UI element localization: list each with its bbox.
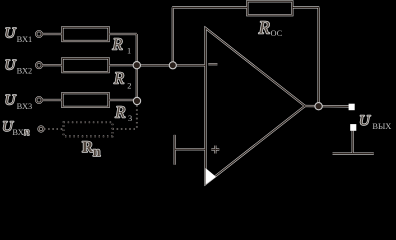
junction dot node R3/bus [134,98,140,104]
svg-text:ВХ: ВХ [12,128,23,137]
junction dot feedback/input node [170,62,176,68]
junction dot halo node R3/bus [133,97,141,105]
svg-text:ВХ3: ВХ3 [17,102,33,111]
junction dot halo node R2/bus [133,61,141,69]
svg-text:ОС: ОС [271,29,283,38]
svg-text:n: n [24,126,30,138]
output terminal lower white pad [350,124,356,131]
junction dot node R2/bus [134,62,140,68]
wire halo layer [36,1,374,184]
dotted ink core layer [44,101,137,136]
output terminal upper white pad [349,104,355,111]
svg-text:2: 2 [127,82,131,91]
svg-text:U: U [5,58,17,74]
dotted halo layer [44,101,137,136]
op-amp corner white patch [206,168,217,185]
svg-text:R: R [112,35,123,54]
svg-text:R: R [258,17,270,37]
svg-text:R: R [114,102,125,121]
svg-text:U: U [5,93,17,109]
svg-text:U: U [5,26,17,42]
junction dot halo feedback node [169,61,177,69]
svg-text:3: 3 [128,114,132,123]
svg-text:1: 1 [127,46,131,55]
svg-text:ВХ2: ВХ2 [17,67,33,76]
junction dot output node [316,103,322,109]
junction dot halo output node [314,102,322,110]
svg-text:R: R [113,68,124,87]
wire ink core layer [36,1,374,184]
svg-text:ВХ1: ВХ1 [17,35,33,44]
svg-text:ВЫХ: ВЫХ [372,122,391,131]
svg-text:n: n [93,145,101,160]
svg-text:U: U [359,113,371,129]
